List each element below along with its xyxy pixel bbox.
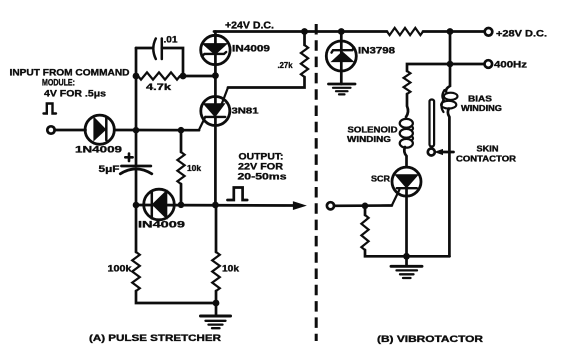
node junction 4.7k left: [133, 73, 140, 80]
wire 3N81 collector to output node: [214, 117, 217, 205]
input pulse symbol: [44, 104, 57, 114]
wire gate input: [334, 204, 392, 207]
skin contactor arrow: [440, 151, 454, 154]
svg-text:100k: 100k: [108, 264, 133, 274]
svg-text:10k: 10k: [222, 264, 240, 274]
node junction 1N3798 top: [338, 28, 345, 35]
node junction 400Hz: [447, 61, 454, 68]
node junction base: [212, 72, 219, 79]
node junction Rb top: [362, 203, 369, 210]
resistor R4 100k: [132, 252, 140, 291]
inductor L1 solenoid winding: [400, 119, 413, 148]
node skin contactor terminal: [428, 149, 435, 156]
svg-text:IN4009: IN4009: [232, 44, 270, 54]
dashed divider line: [315, 24, 318, 341]
svg-text:(A) PULSE STRETCHER: (A) PULSE STRETCHER: [89, 333, 222, 343]
diode D2 1N4009 (top clamp): [201, 35, 230, 64]
wire input terminal to diode: [55, 129, 86, 132]
svg-text:CONTACTOR: CONTACTOR: [456, 155, 516, 164]
wire 100k top lead: [135, 205, 138, 252]
wire left branch vertical: [135, 48, 138, 166]
resistor R2 .27k: [301, 45, 308, 77]
wire diode to 3N81 emitter: [114, 129, 199, 132]
svg-text:(B) VIBROTACTOR: (B) VIBROTACTOR: [377, 334, 484, 344]
svg-text:400Hz: 400Hz: [494, 60, 527, 71]
diode D3 IN4009 (shunt): [144, 189, 175, 220]
svg-text:+28V D.C.: +28V D.C.: [496, 29, 547, 40]
ground (1N3798): [329, 84, 356, 94]
resistor R6 (top rail): [387, 28, 423, 35]
wire top rail +24V to +28V: [214, 30, 387, 33]
label BIAS WINDING: [461, 94, 502, 113]
inductor L2 bias winding: [441, 90, 457, 112]
ground B: [391, 256, 422, 278]
resistor R7 (solenoid branch): [404, 71, 411, 94]
output pulse symbol: [228, 188, 248, 201]
wire bias winding to bottom rail: [448, 109, 450, 257]
wire 10k mid bottom lead: [180, 184, 183, 205]
svg-text:5μF: 5μF: [99, 164, 120, 175]
transistor Q1 3N81: [199, 88, 230, 131]
node junction right branch top: [447, 28, 454, 35]
svg-text:MODULE:: MODULE:: [42, 78, 75, 89]
wire solenoid to SCR: [404, 147, 406, 167]
thyristor Q2 SCR: [392, 167, 421, 205]
label + (5uF polarity): [125, 154, 132, 161]
label OUTPUT 22V FOR 20-50ms: [238, 152, 287, 183]
capacitor C2 5uF: [120, 166, 152, 174]
svg-text:4.7k: 4.7k: [146, 82, 172, 92]
node junction 10k bottom lead: [178, 202, 185, 209]
svg-text:.01: .01: [164, 35, 178, 45]
node terminal gate input B: [327, 202, 334, 209]
label SOLENOID WINDING: [347, 125, 398, 144]
label SKIN CONTACTOR: [456, 145, 516, 164]
wire cap bottom to output wire: [135, 171, 138, 205]
node terminal +28V: [485, 28, 493, 36]
wire .27k bottom to 3N81: [228, 77, 305, 88]
svg-text:WINDING: WINDING: [461, 104, 502, 113]
wire right branch vertical top: [449, 32, 452, 65]
diode D4 1N3798 zener: [326, 32, 356, 85]
svg-text:10k: 10k: [187, 163, 201, 173]
node junction cap/output: [133, 202, 140, 209]
wire .27k top lead: [303, 32, 306, 46]
node junction .27k top: [301, 28, 308, 35]
svg-text:SKIN: SKIN: [477, 145, 499, 154]
node junction 10k top: [178, 127, 185, 134]
node junction output/collector: [212, 202, 219, 209]
resistor R8 (gate): [361, 215, 368, 250]
wire resistor to solenoid: [406, 94, 408, 117]
resistor R1 4.7k: [138, 72, 180, 79]
wire main vertical rail-to-3N81: [214, 32, 217, 105]
wire cap branch top right: [162, 48, 183, 76]
svg-text:3N81: 3N81: [232, 106, 259, 116]
label INPUT FROM COMMAND MODULE: [10, 68, 130, 100]
wire 4.7k to main vertical: [183, 75, 215, 78]
node junction ground A: [213, 300, 220, 307]
node junction ground B: [403, 253, 410, 260]
ground A: [201, 291, 231, 328]
wire Rb top lead: [364, 206, 367, 215]
wire bias winding branch: [446, 64, 450, 92]
node terminal 400Hz: [485, 60, 493, 68]
node input terminal: [47, 126, 54, 133]
svg-text:1N4009: 1N4009: [75, 145, 122, 156]
wire 10k mid leads: [180, 130, 183, 152]
output arrow: [294, 203, 303, 209]
skin contactor rod: [430, 100, 435, 147]
wire solenoid branch top: [407, 64, 450, 71]
wire bottom rail B: [365, 250, 450, 256]
svg-text:WINDING: WINDING: [347, 134, 391, 144]
svg-text:SCR: SCR: [371, 174, 390, 184]
node junction input/branch: [133, 127, 140, 134]
svg-text:4V FOR .5μs: 4V FOR .5μs: [44, 89, 106, 100]
diode D1 1N4009 (input, series): [85, 115, 114, 144]
wire 10k bottom top lead: [215, 205, 218, 252]
node junction 4.7k right: [180, 73, 187, 80]
svg-text:IN4009: IN4009: [138, 220, 185, 231]
wire cap branch top left: [136, 47, 153, 50]
wire SCR cathode down: [405, 188, 408, 256]
svg-text:20-50ms: 20-50ms: [238, 172, 287, 183]
wire 400Hz lead: [450, 63, 485, 66]
svg-text:IN3798: IN3798: [358, 46, 395, 56]
resistor R3 10k (mid): [177, 152, 184, 184]
wire output horizontal: [136, 204, 295, 207]
capacitor C1 .01: [153, 39, 162, 60]
svg-text:.27k: .27k: [278, 60, 293, 70]
resistor R5 10k (bottom): [212, 252, 220, 291]
wire bottom rail A: [136, 291, 216, 303]
svg-text:+24V D.C.: +24V D.C.: [225, 21, 274, 32]
svg-text:BIAS: BIAS: [468, 94, 493, 103]
